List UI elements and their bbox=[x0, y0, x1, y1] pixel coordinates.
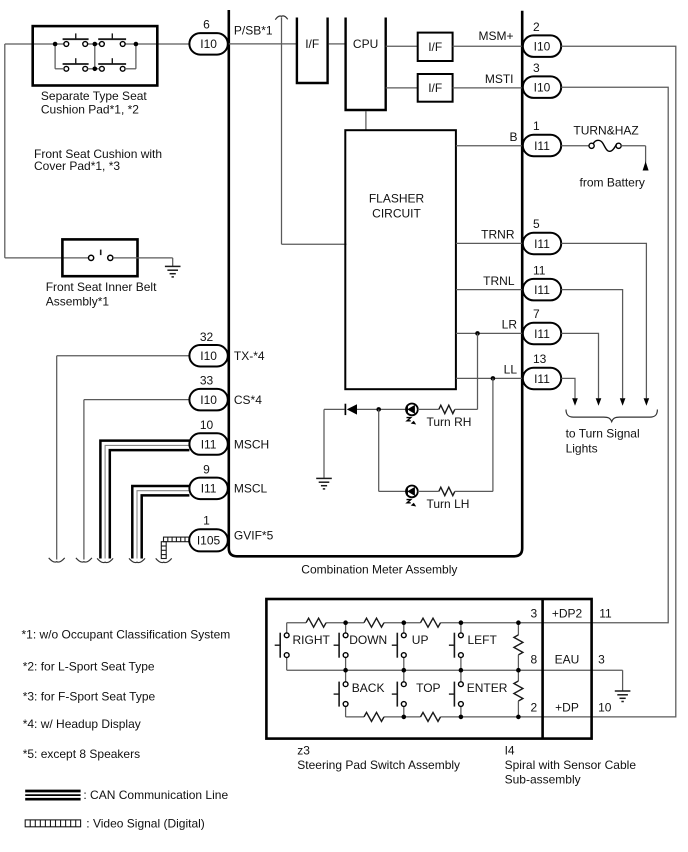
video signal line GVIF bbox=[161, 537, 189, 558]
connector I11 pin 11 (TRNL) bbox=[523, 279, 561, 301]
legend video text bbox=[86, 817, 205, 831]
svg-text:from Battery: from Battery bbox=[580, 175, 645, 189]
svg-text:LEFT: LEFT bbox=[468, 633, 498, 647]
wire row +DP bbox=[346, 716, 593, 718]
seat cushion switch S2 (top-right) bbox=[98, 33, 126, 46]
wire from belt switch to ground bbox=[113, 258, 173, 266]
junction dot on LL wire bbox=[491, 376, 496, 381]
svg-text:Turn LH: Turn LH bbox=[427, 497, 470, 511]
node label LL bbox=[504, 363, 518, 377]
wire resistor RH up to LR wire bbox=[455, 333, 478, 409]
pin 2 label bbox=[533, 20, 540, 34]
wire P/SB inside meter to I/F bbox=[228, 43, 296, 45]
legend CAN communication line symbol bbox=[25, 791, 80, 799]
connector I10 pin 3 (MSTI) bbox=[523, 76, 561, 98]
note *3 bbox=[23, 690, 156, 704]
ground at inner belt bbox=[165, 266, 181, 277]
wire B from flasher to I11 pin 1 bbox=[456, 145, 523, 147]
svg-text:11: 11 bbox=[599, 607, 612, 621]
switch BACK bbox=[334, 670, 385, 717]
svg-text:3: 3 bbox=[598, 653, 605, 667]
junction dots on +DP2 row bbox=[343, 620, 520, 625]
label I4 Spiral with Sensor Cable Sub-assembly bbox=[505, 744, 637, 787]
arrowheads to turn signal lights bbox=[572, 398, 649, 406]
svg-text:z3: z3 bbox=[297, 744, 310, 758]
label z3 Steering Pad Switch Assembly bbox=[297, 744, 460, 773]
label Front Seat Cushion with Cover Pad bbox=[34, 147, 162, 173]
wire I/F to CPU bbox=[329, 43, 345, 45]
svg-text:UP: UP bbox=[412, 633, 429, 647]
pin 13 label bbox=[533, 352, 547, 366]
net label MSCL bbox=[234, 482, 268, 496]
connector I11 pin 9 bbox=[189, 478, 227, 500]
ground inside combination meter bbox=[316, 478, 332, 489]
terminal name +DP2 bbox=[552, 607, 583, 621]
svg-text:Combination Meter Assembly: Combination Meter Assembly bbox=[301, 562, 457, 576]
wire right branch of seat switches bbox=[125, 44, 136, 69]
svg-text:to Turn Signal: to Turn Signal bbox=[566, 427, 640, 441]
note *2 bbox=[23, 660, 155, 674]
svg-text:10: 10 bbox=[598, 701, 612, 715]
wire diode to junction A bbox=[357, 408, 406, 410]
svg-text:ENTER: ENTER bbox=[467, 681, 508, 695]
svg-text:+DP2: +DP2 bbox=[552, 607, 583, 621]
svg-text:MSCH: MSCH bbox=[234, 437, 269, 451]
pin 1 label bbox=[203, 514, 210, 528]
svg-text:I11: I11 bbox=[534, 283, 550, 297]
net label P/SB*1 bbox=[234, 23, 273, 37]
svg-text:Separate Type Seat: Separate Type Seat bbox=[41, 89, 148, 103]
svg-text:3: 3 bbox=[533, 61, 540, 75]
svg-text:I11: I11 bbox=[201, 482, 217, 496]
svg-text:MSTI: MSTI bbox=[485, 72, 514, 86]
svg-text:I10: I10 bbox=[200, 37, 217, 51]
svg-text:TRNL: TRNL bbox=[483, 274, 515, 288]
svg-text:CPU: CPU bbox=[353, 37, 378, 51]
note *1 bbox=[22, 627, 231, 641]
net label MSCH bbox=[234, 437, 269, 451]
svg-text:I10: I10 bbox=[200, 349, 217, 363]
svg-text:*5: except 8 Speakers: *5: except 8 Speakers bbox=[23, 747, 140, 761]
junction dots seat cushion bbox=[53, 42, 138, 71]
CAN communication line MSCH bbox=[100, 441, 189, 559]
front seat inner belt assembly box bbox=[62, 239, 137, 276]
switch LEFT bbox=[449, 623, 498, 671]
fuse TURN&HAZ bbox=[589, 140, 621, 151]
flasher circuit box bbox=[345, 130, 456, 389]
pin 3 label (+DP2 inside) bbox=[531, 607, 538, 621]
interface box I/F U2 bbox=[418, 33, 453, 61]
label Turn RH bbox=[427, 415, 472, 429]
wire LR to turn signal lights bbox=[561, 333, 598, 398]
legend video signal symbol bbox=[25, 820, 80, 827]
svg-text:TRNR: TRNR bbox=[481, 228, 515, 242]
svg-text:I10: I10 bbox=[200, 393, 217, 407]
svg-text:11: 11 bbox=[533, 263, 546, 277]
steering pad switch assembly box bbox=[266, 599, 591, 739]
wire I/F U2 to I10 pin 2 (MSM+) bbox=[453, 45, 523, 47]
node label TRNR bbox=[481, 228, 515, 242]
svg-text:MSM+: MSM+ bbox=[478, 29, 513, 43]
wire LED RH to resistor bbox=[418, 408, 439, 410]
svg-text:I10: I10 bbox=[534, 80, 551, 94]
terminal name +DP bbox=[555, 701, 579, 715]
svg-text:BACK: BACK bbox=[352, 681, 385, 695]
connector I105 pin 1 bbox=[189, 529, 228, 551]
pin 32 label bbox=[200, 330, 214, 344]
svg-text:I11: I11 bbox=[534, 139, 550, 153]
wire row +DP2 bbox=[287, 622, 593, 624]
svg-text:33: 33 bbox=[200, 374, 214, 388]
seat cushion switch S1 (top-left) bbox=[63, 33, 89, 46]
wire ground branch of indicator circuit bbox=[324, 409, 345, 478]
resistor R-RH bbox=[439, 405, 455, 413]
svg-text:B: B bbox=[509, 130, 517, 144]
wire row EAU bbox=[287, 669, 623, 671]
svg-text:Spiral with Sensor Cable: Spiral with Sensor Cable bbox=[505, 758, 637, 772]
continuation mark TX wire bbox=[49, 558, 65, 562]
svg-text:Steering Pad Switch Assembly: Steering Pad Switch Assembly bbox=[297, 758, 460, 772]
node label B bbox=[509, 130, 517, 144]
svg-text:Assembly*1: Assembly*1 bbox=[46, 294, 110, 308]
svg-text:: CAN Communication Line: : CAN Communication Line bbox=[83, 788, 228, 802]
svg-text:32: 32 bbox=[200, 330, 214, 344]
wire TRNR to turn signal lights bbox=[561, 243, 646, 398]
switch RIGHT bbox=[275, 623, 331, 671]
net label CS*4 bbox=[234, 393, 262, 407]
resistor R1 on +DP2 row bbox=[306, 618, 326, 627]
svg-text:Cushion Pad*1, *2: Cushion Pad*1, *2 bbox=[41, 102, 139, 116]
wire CPU to I/F U3 bbox=[386, 87, 418, 89]
svg-text:8: 8 bbox=[531, 653, 538, 667]
net label MSM+ bbox=[478, 29, 513, 43]
continuation mark CS wire bbox=[76, 558, 92, 562]
resistor R2 on +DP2 row bbox=[364, 618, 384, 627]
LED Turn RH bbox=[406, 404, 418, 425]
seat cushion switch S3 (bottom-left) bbox=[63, 58, 89, 71]
connector I11 pin 7 (LR) bbox=[523, 323, 561, 345]
svg-text:*3: for F-Sport Seat Type: *3: for F-Sport Seat Type bbox=[23, 690, 156, 704]
connector I10 pin 2 (MSM+) bbox=[523, 35, 561, 57]
connector I10 pin 32 bbox=[189, 345, 227, 367]
connector I10 pin 6 bbox=[189, 33, 227, 55]
pin 6 label bbox=[203, 18, 210, 32]
net label MSTI bbox=[485, 72, 514, 86]
net label TX-*4 bbox=[234, 349, 265, 363]
pin 2 label (+DP inside) bbox=[531, 701, 538, 715]
wire MSM+ to spiral cable +DP bbox=[561, 46, 676, 717]
svg-text:MSCL: MSCL bbox=[234, 482, 268, 496]
svg-text:+DP: +DP bbox=[555, 701, 579, 715]
interface box I/F U3 bbox=[418, 74, 453, 102]
svg-text:1: 1 bbox=[533, 119, 540, 133]
pin 3 label (outside) bbox=[598, 653, 605, 667]
continuation mark MSCL wire bbox=[129, 558, 145, 562]
note *5 bbox=[23, 747, 140, 761]
svg-text:CIRCUIT: CIRCUIT bbox=[372, 207, 421, 221]
wire resistor LH up to LL wire bbox=[455, 378, 493, 491]
continuation mark GVIF wire bbox=[156, 558, 172, 562]
wire CPU to I/F U2 bbox=[386, 45, 418, 47]
pin 11 label bbox=[533, 263, 546, 277]
wire TRNL to turn signal lights bbox=[561, 290, 622, 399]
wire left branch of seat switches bbox=[55, 44, 64, 69]
spiral cable divider bbox=[541, 599, 544, 739]
svg-text:Lights: Lights bbox=[566, 441, 598, 455]
svg-text:*1: w/o Occupant Classificatio: *1: w/o Occupant Classification System bbox=[22, 627, 231, 641]
svg-text:Sub-assembly: Sub-assembly bbox=[505, 773, 581, 787]
pin 1 label (B) bbox=[533, 119, 540, 133]
connector I11 pin 13 (LL) bbox=[523, 368, 561, 390]
label Combination Meter Assembly bbox=[301, 562, 457, 576]
wire from seat cushion pad to I10 pin 6 (P/SB), with left branch down bbox=[5, 44, 190, 258]
svg-text:FLASHER: FLASHER bbox=[369, 191, 425, 205]
CPU block bbox=[346, 18, 386, 111]
svg-text:7: 7 bbox=[533, 307, 540, 321]
pin 9 label bbox=[203, 462, 210, 476]
continuation mark MSCH wire bbox=[97, 558, 113, 562]
svg-text:DOWN: DOWN bbox=[349, 633, 387, 647]
svg-text:TX-*4: TX-*4 bbox=[234, 349, 265, 363]
svg-text:EAU: EAU bbox=[555, 653, 580, 667]
wire LL to turn signal lights bbox=[561, 378, 575, 398]
svg-text:*4: w/ Headup Display: *4: w/ Headup Display bbox=[23, 717, 141, 731]
svg-text:2: 2 bbox=[533, 20, 540, 34]
junction dots on EAU row bbox=[343, 668, 520, 673]
continuation mark at top of P/SB branch bbox=[275, 16, 287, 20]
svg-text:3: 3 bbox=[531, 607, 538, 621]
svg-text:5: 5 bbox=[533, 217, 540, 231]
svg-text:I11: I11 bbox=[534, 372, 550, 386]
svg-text:LL: LL bbox=[504, 363, 518, 377]
belt buckle switch bbox=[89, 250, 113, 261]
svg-text:TURN&HAZ: TURN&HAZ bbox=[573, 124, 638, 138]
svg-text:Cover Pad*1, *3: Cover Pad*1, *3 bbox=[34, 159, 120, 173]
combination meter assembly box (rounded, open top) bbox=[229, 10, 522, 556]
junction dot on LR wire bbox=[475, 331, 480, 336]
node label TRNL bbox=[483, 274, 515, 288]
svg-text:CS*4: CS*4 bbox=[234, 393, 262, 407]
wire fuse to battery feed bbox=[621, 146, 645, 163]
pin 10 label (outside) bbox=[598, 701, 612, 715]
connector I11 pin 5 (TRNR) bbox=[523, 233, 561, 255]
pin 33 label bbox=[200, 374, 214, 388]
wire CPU to flasher circuit bbox=[365, 111, 367, 130]
svg-text:P/SB*1: P/SB*1 bbox=[234, 23, 273, 37]
resistor R7 (vertical, EAU to +DP) bbox=[514, 670, 523, 717]
resistor R6 (vertical, +DP2 to EAU) bbox=[514, 623, 523, 671]
svg-text:6: 6 bbox=[203, 18, 210, 32]
svg-text:GVIF*5: GVIF*5 bbox=[234, 529, 274, 543]
wire into front seat inner belt switch bbox=[5, 257, 89, 259]
wire junction A down to Turn LH row bbox=[378, 409, 380, 491]
resistor R-LH bbox=[439, 487, 455, 495]
svg-text:: Video Signal (Digital): : Video Signal (Digital) bbox=[86, 817, 205, 831]
label Turn LH bbox=[427, 497, 470, 511]
switch ENTER bbox=[449, 670, 508, 717]
separate type seat cushion pad box bbox=[33, 26, 158, 85]
svg-text:I11: I11 bbox=[534, 237, 550, 251]
svg-text:2: 2 bbox=[531, 701, 538, 715]
arrow from battery (pointing up) bbox=[643, 161, 649, 170]
pin 3 label bbox=[533, 61, 540, 75]
label TURN&amp;HAZ fuse bbox=[573, 124, 638, 138]
wire I/F U3 to I10 pin 3 (MSTI) bbox=[453, 87, 523, 89]
node label LR bbox=[502, 318, 518, 332]
seat cushion switch S4 (bottom-right) bbox=[98, 58, 126, 71]
svg-text:I/F: I/F bbox=[428, 81, 442, 95]
wire B to fuse bbox=[561, 145, 589, 147]
wire LR from flasher to I11 pin 7 bbox=[456, 332, 523, 334]
svg-text:9: 9 bbox=[203, 462, 210, 476]
net label GVIF*5 bbox=[234, 529, 274, 543]
legend CAN text bbox=[83, 788, 228, 802]
label Front Seat Inner Belt Assembly bbox=[46, 280, 157, 308]
wire LL from flasher to I11 pin 13 bbox=[456, 377, 523, 379]
terminal name EAU bbox=[555, 653, 580, 667]
pin 7 label bbox=[533, 307, 540, 321]
switch UP bbox=[392, 623, 429, 671]
wire TX to page edge bbox=[57, 356, 190, 560]
pin 8 label (EAU inside) bbox=[531, 653, 538, 667]
svg-text:RIGHT: RIGHT bbox=[293, 633, 331, 647]
wire TRNR from flasher to I11 pin 5 bbox=[456, 242, 523, 244]
label from Battery bbox=[580, 175, 645, 189]
pin 5 label bbox=[533, 217, 540, 231]
pin 11 label (outside) bbox=[599, 607, 612, 621]
wire MSTI to spiral cable +DP2 bbox=[561, 87, 668, 623]
connector I11 pin 1 (B) bbox=[523, 135, 561, 157]
label to Turn Signal Lights bbox=[566, 427, 640, 456]
branch wire from P/SB down to flasher circuit bbox=[282, 17, 347, 244]
svg-text:I105: I105 bbox=[197, 534, 221, 548]
svg-text:I4: I4 bbox=[505, 744, 515, 758]
svg-text:I11: I11 bbox=[534, 327, 550, 341]
note *4 bbox=[23, 717, 141, 731]
connector I11 pin 10 bbox=[189, 433, 227, 455]
label Separate Type Seat Cushion Pad bbox=[41, 89, 148, 117]
junction dot A bbox=[376, 407, 381, 412]
svg-text:13: 13 bbox=[533, 352, 547, 366]
wire Turn LH row from junction bbox=[379, 490, 406, 492]
LED Turn LH bbox=[406, 486, 418, 507]
svg-text:Front Seat Inner Belt: Front Seat Inner Belt bbox=[46, 280, 157, 294]
svg-text:1: 1 bbox=[203, 514, 210, 528]
switch TOP bbox=[392, 670, 441, 717]
wire CS to page edge bbox=[84, 400, 189, 560]
svg-text:I10: I10 bbox=[534, 39, 551, 53]
resistor R5 on +DP row bbox=[421, 712, 441, 721]
svg-text:Turn RH: Turn RH bbox=[427, 415, 472, 429]
diode D1 (shared cathode to ground) bbox=[345, 404, 357, 415]
interface block I/F U1 bbox=[297, 18, 328, 84]
ground at spiral cable EAU bbox=[615, 691, 631, 702]
CAN communication line MSCL bbox=[132, 486, 189, 559]
junction dots on +DP row bbox=[402, 715, 521, 720]
wire TRNL from flasher to I11 pin 11 bbox=[456, 289, 523, 291]
wire LED LH to resistor bbox=[418, 490, 439, 492]
svg-text:I/F: I/F bbox=[428, 40, 442, 54]
svg-text:TOP: TOP bbox=[416, 681, 440, 695]
resistor R4 on +DP row bbox=[364, 712, 384, 721]
svg-text:I/F: I/F bbox=[305, 37, 319, 51]
wire EAU to ground bbox=[622, 670, 624, 690]
svg-text:I11: I11 bbox=[201, 437, 217, 451]
wire middle branch of seat switches bbox=[88, 44, 100, 69]
pin 10 label bbox=[200, 418, 214, 432]
svg-text:10: 10 bbox=[200, 418, 214, 432]
brace under turn signal arrows bbox=[566, 410, 657, 422]
resistor R3 on +DP2 row bbox=[421, 618, 441, 627]
connector I10 pin 33 bbox=[189, 389, 227, 411]
svg-text:*2: for L-Sport Seat Type: *2: for L-Sport Seat Type bbox=[23, 660, 155, 674]
svg-text:LR: LR bbox=[502, 318, 518, 332]
switch DOWN bbox=[334, 623, 388, 671]
